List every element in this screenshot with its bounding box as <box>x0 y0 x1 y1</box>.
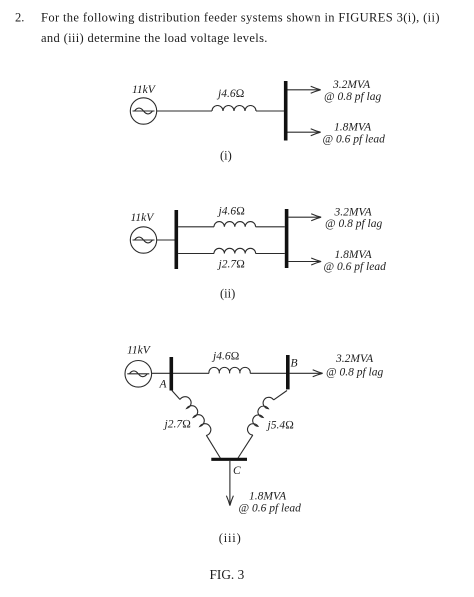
wire inductor to busbar (i) <box>256 110 284 112</box>
svg-text:j2.7Ω: j2.7Ω <box>217 259 246 271</box>
svg-text:@ 0.6 pf lead: @ 0.6 pf lead <box>324 261 387 273</box>
inductor j5.4ohm (iii) <box>248 397 274 435</box>
svg-text:A: A <box>159 378 168 390</box>
svg-text:11kV: 11kV <box>131 212 156 224</box>
load arrow 1.8MVA (ii) <box>288 258 321 265</box>
svg-text:FIG. 3: FIG. 3 <box>210 567 245 582</box>
svg-text:1.8MVA: 1.8MVA <box>334 122 372 134</box>
svg-text:@ 0.8 pf lag: @ 0.8 pf lag <box>324 91 381 103</box>
wire source to inductor (i) <box>157 110 212 112</box>
wire A to left inductor (iii) <box>172 391 180 400</box>
busbar node A (iii) <box>170 357 174 391</box>
svg-text:j4.6Ω: j4.6Ω <box>211 351 240 363</box>
busbar (i) <box>284 81 288 141</box>
wire top branch right (ii) <box>256 226 285 228</box>
source G1 (iii) <box>125 361 152 388</box>
svg-text:(iii): (iii) <box>219 531 242 545</box>
wire bottom branch left (ii) <box>178 253 214 255</box>
right busbar (ii) <box>285 209 289 268</box>
svg-text:@ 0.8 pf lag: @ 0.8 pf lag <box>326 367 383 379</box>
svg-text:For the following distribution: For the following distribution feeder sy… <box>41 11 440 25</box>
inductor j2.7ohm (iii) <box>180 397 211 436</box>
busbar node C (iii) <box>211 458 247 461</box>
svg-text:3.2MVA: 3.2MVA <box>334 207 373 219</box>
load arrow 3.2MVA (ii) <box>288 214 321 221</box>
svg-text:C: C <box>233 465 241 477</box>
load arrow 1.8MVA (i) <box>288 129 321 136</box>
load arrow 3.2MVA (iii) <box>290 370 323 377</box>
busbar node B (iii) <box>286 355 290 389</box>
source G1 (ii) <box>130 227 156 253</box>
wire left inductor to node C (iii) <box>206 435 220 458</box>
source G1 (i) <box>130 98 156 124</box>
left busbar (ii) <box>175 210 179 269</box>
svg-text:j4.6Ω: j4.6Ω <box>216 88 245 100</box>
svg-text:j5.4Ω: j5.4Ω <box>266 420 295 432</box>
inductor j4.6ohm (i) <box>212 106 256 112</box>
svg-text:3.2MVA: 3.2MVA <box>332 79 371 91</box>
inductor j2.7ohm (ii) <box>214 248 256 253</box>
wire top branch left (ii) <box>178 226 214 228</box>
svg-text:1.8MVA: 1.8MVA <box>335 249 373 261</box>
inductor j4.6ohm (ii) <box>214 222 256 227</box>
svg-text:2.: 2. <box>15 11 24 25</box>
load arrow 1.8MVA (iii) <box>226 461 233 506</box>
wire source to left busbar (ii) <box>157 239 175 241</box>
wire source to node A (iii) <box>152 372 209 374</box>
wire right inductor to node C (iii) <box>238 435 253 458</box>
svg-text:@ 0.6 pf lead: @ 0.6 pf lead <box>323 134 386 146</box>
svg-text:(ii): (ii) <box>220 287 235 301</box>
wire bottom branch right (ii) <box>256 253 285 255</box>
wire B to right inductor (iii) <box>274 391 287 400</box>
svg-text:1.8MVA: 1.8MVA <box>249 491 287 503</box>
wire inductor to node B (iii) <box>250 372 286 374</box>
svg-text:(i): (i) <box>220 149 232 163</box>
svg-text:j4.6Ω: j4.6Ω <box>217 206 246 218</box>
svg-text:B: B <box>291 358 298 370</box>
svg-text:3.2MVA: 3.2MVA <box>335 353 374 365</box>
svg-text:@ 0.8 pf lag: @ 0.8 pf lag <box>325 218 382 230</box>
svg-text:and (iii) determine the load v: and (iii) determine the load voltage lev… <box>41 31 268 45</box>
load arrow 3.2MVA (i) <box>288 86 321 93</box>
svg-text:11kV: 11kV <box>127 345 152 357</box>
inductor j4.6ohm (iii) <box>209 367 250 373</box>
svg-text:@ 0.6 pf lead: @ 0.6 pf lead <box>239 503 302 515</box>
svg-text:11kV: 11kV <box>132 84 157 96</box>
svg-text:j2.7Ω: j2.7Ω <box>163 419 192 431</box>
